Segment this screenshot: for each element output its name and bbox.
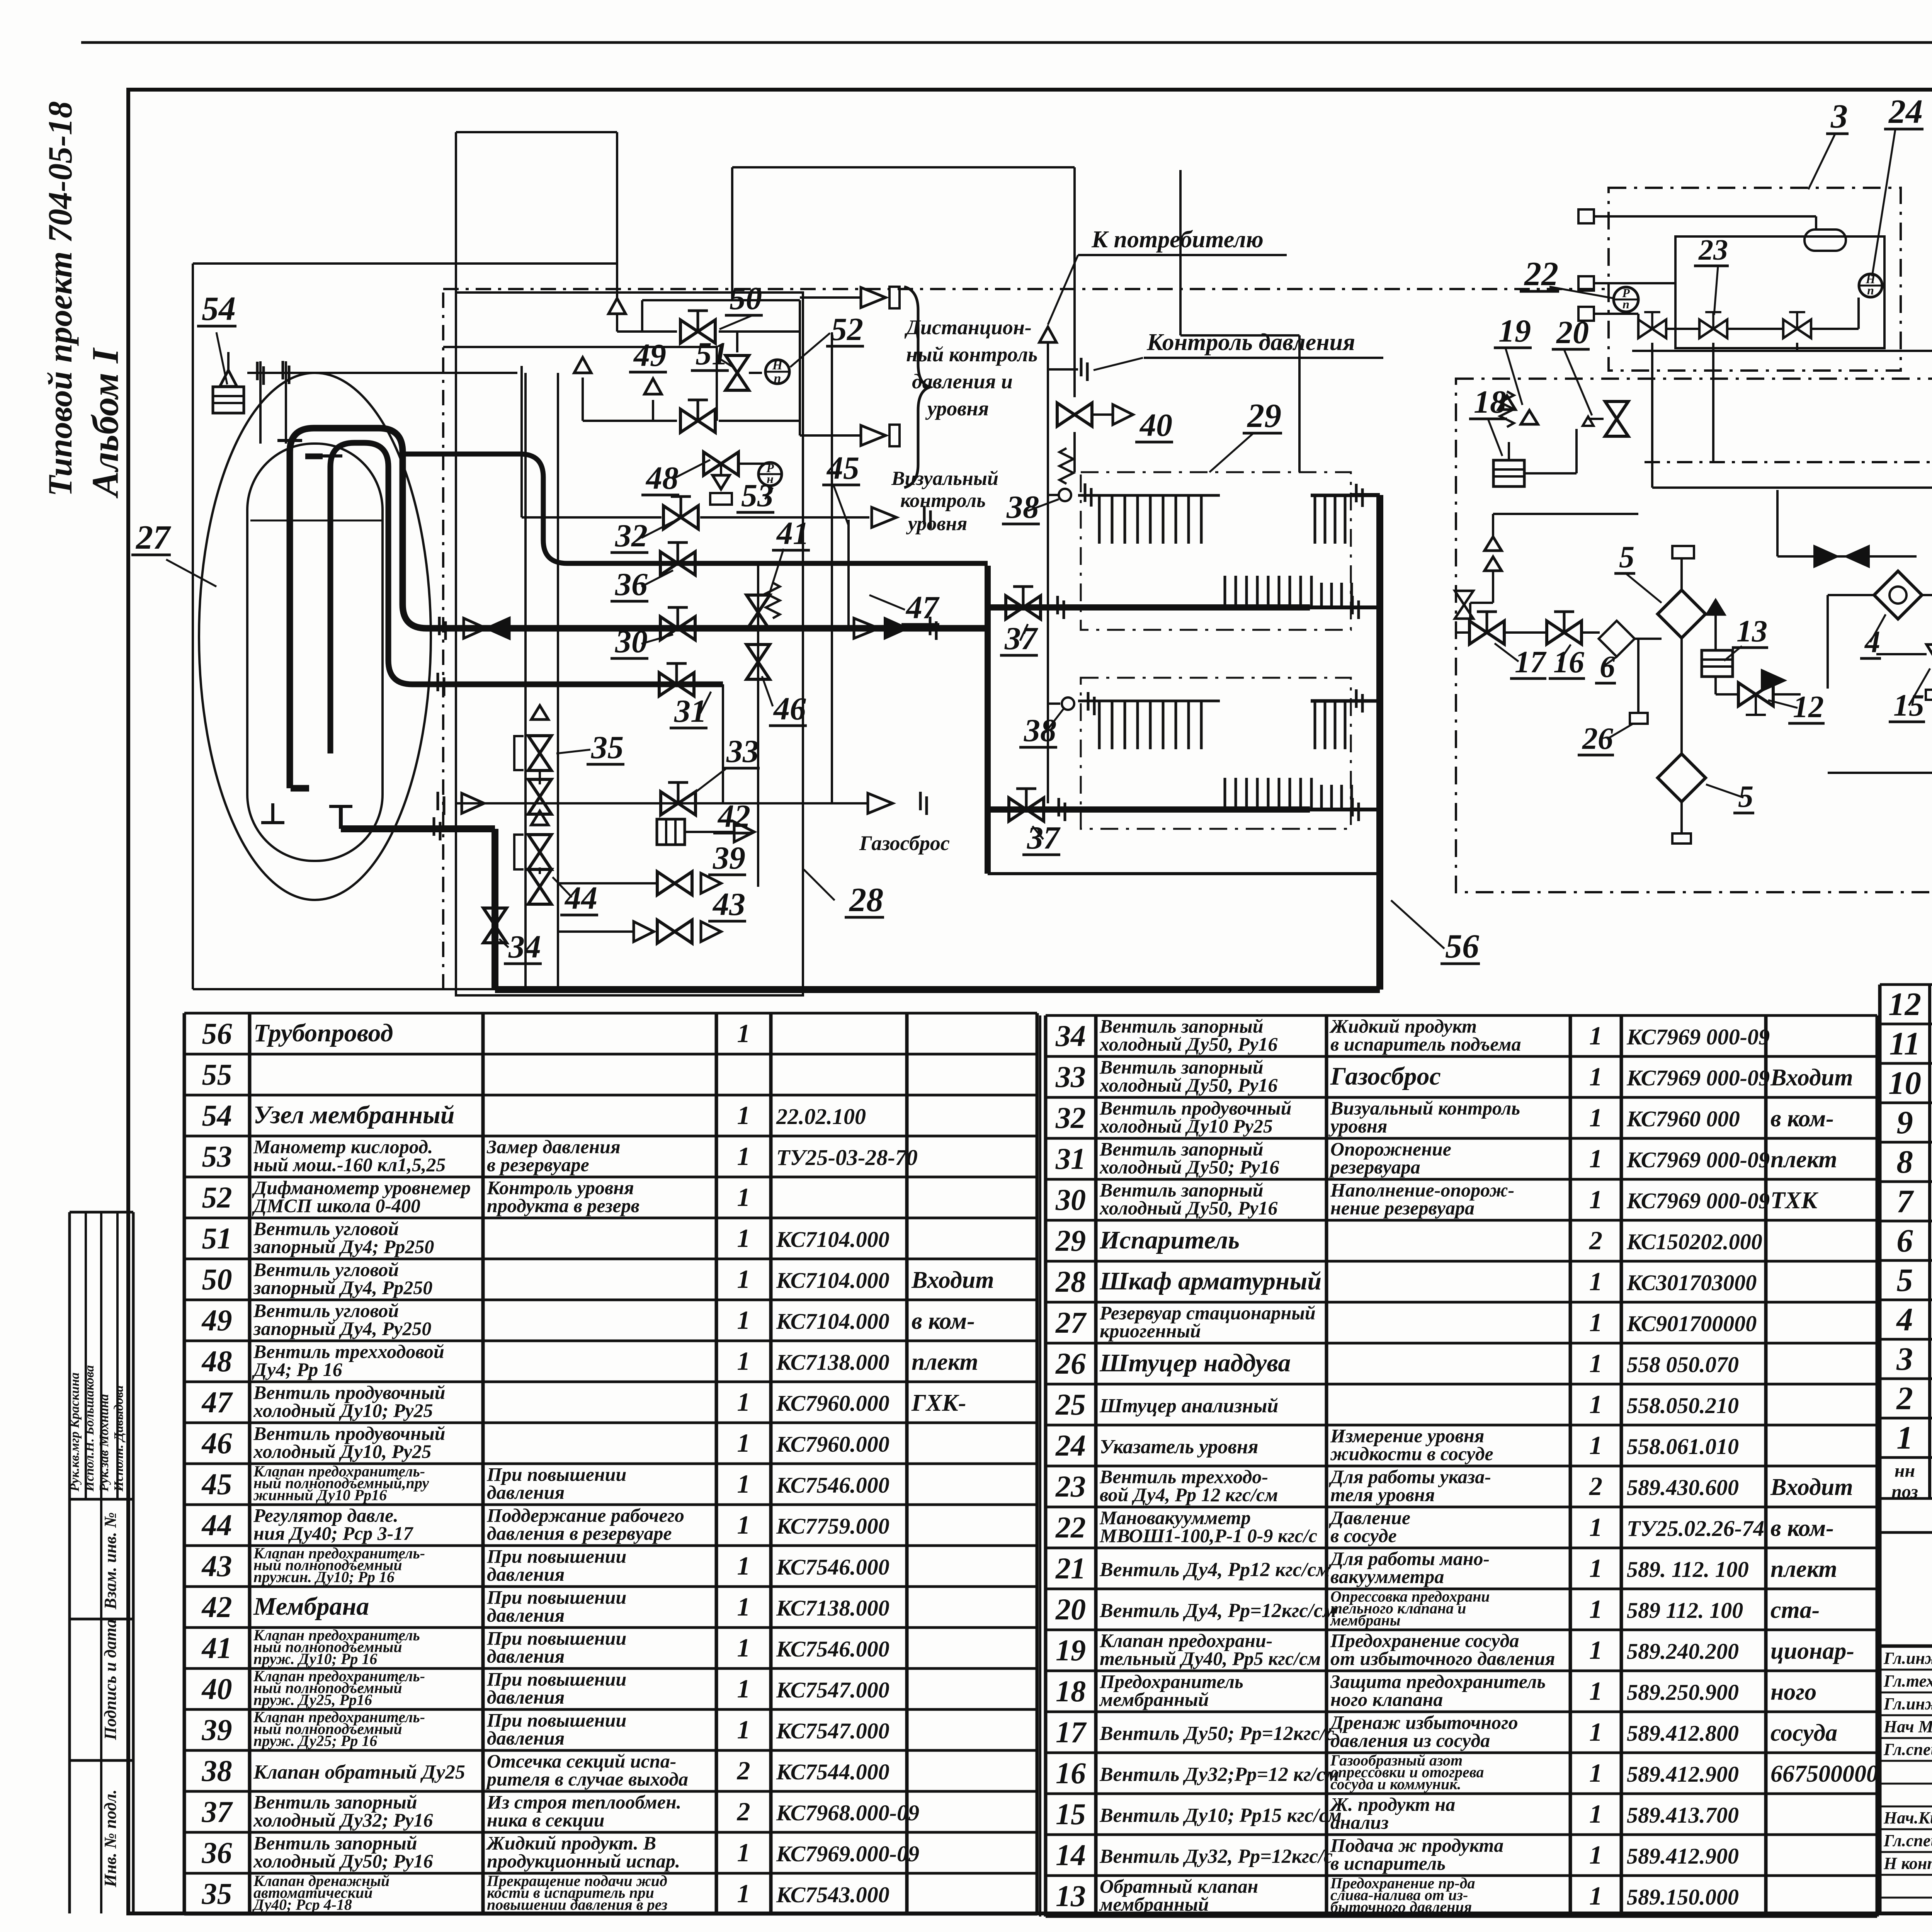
svg-text:в ком-: в ком- — [912, 1308, 975, 1334]
svg-text:44: 44 — [201, 1508, 232, 1542]
svg-text:п: п — [1867, 283, 1874, 297]
svg-text:1: 1 — [1589, 1758, 1602, 1787]
svg-text:Входит: Входит — [1770, 1065, 1853, 1091]
svg-text:19: 19 — [1498, 313, 1531, 349]
svg-text:КС7969.000-09: КС7969.000-09 — [776, 1841, 919, 1866]
svg-text:47: 47 — [905, 590, 940, 626]
svg-text:ный контроль: ный контроль — [906, 343, 1037, 366]
svg-text:15: 15 — [1056, 1797, 1086, 1831]
svg-text:1: 1 — [1589, 1635, 1602, 1665]
svg-text:пружин. Ду10; Рр 16: пружин. Ду10; Рр 16 — [253, 1568, 395, 1585]
svg-text:42: 42 — [201, 1590, 232, 1624]
svg-text:13: 13 — [1736, 614, 1767, 648]
svg-text:Гл.инженер: Гл.инженер — [1883, 1649, 1932, 1668]
svg-text:холодный Ду32; Ру16: холодный Ду32; Ру16 — [253, 1809, 433, 1831]
svg-text:29: 29 — [1055, 1224, 1086, 1257]
svg-text:31: 31 — [1055, 1142, 1086, 1175]
svg-text:КС7104.000: КС7104.000 — [776, 1227, 889, 1252]
svg-text:52: 52 — [831, 311, 863, 347]
svg-text:Н: Н — [772, 358, 783, 372]
svg-text:КС7138.000: КС7138.000 — [776, 1350, 889, 1375]
svg-text:53: 53 — [202, 1139, 232, 1173]
svg-text:КС7547.000: КС7547.000 — [776, 1677, 889, 1702]
svg-text:589.430.600: 589.430.600 — [1627, 1475, 1739, 1500]
svg-text:КС301703000: КС301703000 — [1626, 1270, 1757, 1295]
svg-text:1: 1 — [737, 1469, 750, 1498]
svg-text:27: 27 — [1055, 1306, 1087, 1339]
svg-text:анализ: анализ — [1330, 1811, 1389, 1833]
svg-text:56: 56 — [202, 1017, 232, 1050]
svg-text:Гл.технолог: Гл.технолог — [1883, 1672, 1932, 1690]
svg-text:плект: плект — [1770, 1556, 1837, 1582]
svg-text:Типовой проект 704-05-18: Типовой проект 704-05-18 — [42, 101, 79, 497]
svg-text:холодный Ду50, Ру16: холодный Ду50, Ру16 — [1099, 1033, 1277, 1055]
svg-text:16: 16 — [1553, 645, 1584, 679]
svg-text:589.412.900: 589.412.900 — [1627, 1762, 1739, 1787]
svg-text:Нач.Кип: Нач.Кип — [1883, 1808, 1932, 1827]
svg-text:1: 1 — [737, 1633, 750, 1662]
svg-text:26: 26 — [1055, 1347, 1086, 1380]
svg-text:17: 17 — [1056, 1715, 1087, 1749]
svg-text:КС7969 000-09: КС7969 000-09 — [1626, 1024, 1770, 1049]
svg-text:КС7960 000: КС7960 000 — [1626, 1106, 1740, 1131]
svg-text:1: 1 — [1896, 1420, 1913, 1456]
svg-text:вой Ду4, Рр 12 кгс/см: вой Ду4, Рр 12 кгс/см — [1100, 1484, 1278, 1505]
svg-text:1: 1 — [1589, 1185, 1602, 1214]
svg-text:558.050.210: 558.050.210 — [1627, 1393, 1739, 1418]
svg-text:Подпись и дата: Подпись и дата — [101, 1619, 120, 1740]
svg-text:холодный Ду10 Ру25: холодный Ду10 Ру25 — [1099, 1115, 1273, 1137]
svg-text:17: 17 — [1515, 645, 1547, 679]
svg-text:3: 3 — [1830, 98, 1848, 135]
svg-text:37: 37 — [1027, 820, 1061, 856]
svg-text:52: 52 — [202, 1180, 232, 1214]
svg-text:давления: давления — [487, 1645, 565, 1667]
svg-text:40: 40 — [201, 1672, 232, 1706]
svg-text:плект: плект — [1770, 1146, 1837, 1173]
svg-text:давления: давления — [487, 1727, 565, 1749]
svg-text:Мембрана: Мембрана — [253, 1592, 369, 1621]
svg-text:40: 40 — [1139, 407, 1172, 443]
svg-text:14: 14 — [1056, 1838, 1086, 1872]
svg-text:холодный Ду10, Ру25: холодный Ду10, Ру25 — [253, 1440, 431, 1462]
svg-text:ного: ного — [1770, 1679, 1816, 1705]
svg-text:19: 19 — [1056, 1633, 1086, 1667]
svg-text:тельный Ду40, Рр5 кгс/см: тельный Ду40, Рр5 кгс/см — [1100, 1648, 1321, 1669]
svg-text:ДМСП школа 0-400: ДМСП школа 0-400 — [252, 1195, 420, 1216]
svg-text:45: 45 — [201, 1467, 232, 1501]
svg-text:589.412.800: 589.412.800 — [1627, 1721, 1739, 1746]
svg-text:23: 23 — [1055, 1469, 1086, 1503]
svg-text:34: 34 — [508, 929, 541, 965]
svg-text:34: 34 — [1055, 1019, 1086, 1053]
svg-text:КС7104.000: КС7104.000 — [776, 1268, 889, 1293]
svg-text:1: 1 — [737, 1428, 750, 1458]
svg-text:1: 1 — [737, 1264, 750, 1294]
svg-text:от избыточного давления: от избыточного давления — [1330, 1648, 1555, 1669]
svg-text:1: 1 — [1589, 1553, 1602, 1583]
svg-text:Гл.спец.кип: Гл.спец.кип — [1883, 1831, 1932, 1850]
svg-text:Шкаф арматурный: Шкаф арматурный — [1099, 1267, 1321, 1295]
svg-text:9: 9 — [1896, 1104, 1913, 1141]
svg-text:Ду4; Рр 16: Ду4; Рр 16 — [252, 1359, 342, 1380]
svg-text:1: 1 — [1589, 1062, 1602, 1091]
svg-text:1: 1 — [737, 1715, 750, 1744]
svg-text:35: 35 — [591, 730, 624, 765]
svg-text:Инв. № подл.: Инв. № подл. — [101, 1789, 120, 1888]
svg-text:1: 1 — [1589, 1430, 1602, 1460]
svg-text:КС7960.000: КС7960.000 — [776, 1432, 889, 1457]
svg-text:28: 28 — [1055, 1265, 1086, 1298]
svg-text:39: 39 — [713, 840, 745, 876]
svg-text:Вентиль Ду32, Рр=12кгс/с: Вентиль Ду32, Рр=12кгс/с — [1099, 1845, 1333, 1867]
svg-text:1: 1 — [1589, 1308, 1602, 1337]
svg-text:54: 54 — [202, 290, 236, 328]
svg-text:жинный Ду10 Рр16: жинный Ду10 Рр16 — [253, 1486, 387, 1503]
svg-text:ного клапана: ного клапана — [1330, 1689, 1443, 1710]
svg-text:46: 46 — [773, 691, 806, 727]
svg-text:теля уровня: теля уровня — [1330, 1484, 1435, 1505]
svg-text:Н контр: Н контр — [1883, 1854, 1932, 1873]
svg-text:21: 21 — [1055, 1551, 1086, 1585]
svg-text:давления: давления — [487, 1481, 565, 1503]
svg-text:запорный Ду4, Ру250: запорный Ду4, Ру250 — [253, 1318, 431, 1339]
svg-text:мембраны: мембраны — [1330, 1611, 1400, 1629]
svg-text:41: 41 — [201, 1631, 232, 1665]
svg-text:589.412.900: 589.412.900 — [1627, 1844, 1739, 1869]
svg-text:45: 45 — [826, 450, 859, 486]
svg-text:46: 46 — [201, 1426, 232, 1460]
svg-text:1: 1 — [1589, 1389, 1602, 1419]
svg-text:плект: плект — [912, 1349, 978, 1375]
svg-text:ный мош.-160 кл1,5,25: ный мош.-160 кл1,5,25 — [253, 1154, 446, 1175]
svg-text:1: 1 — [737, 1510, 750, 1539]
svg-text:558.061.010: 558.061.010 — [1627, 1434, 1739, 1459]
svg-text:3: 3 — [1896, 1341, 1913, 1377]
svg-text:1: 1 — [1589, 1103, 1602, 1132]
svg-text:28: 28 — [849, 881, 883, 919]
svg-text:нн: нн — [1895, 1461, 1915, 1481]
svg-text:1: 1 — [737, 1305, 750, 1335]
svg-text:Ду40; Рср 4-18: Ду40; Рср 4-18 — [252, 1896, 352, 1913]
svg-text:1: 1 — [737, 1838, 750, 1867]
svg-text:Гл.спец.мко: Гл.спец.мко — [1883, 1740, 1932, 1759]
svg-text:22.02.100: 22.02.100 — [776, 1104, 866, 1129]
svg-text:Рук.кв.мгр Краскина: Рук.кв.мгр Краскина — [68, 1372, 82, 1492]
svg-text:продукционный испар.: продукционный испар. — [487, 1850, 680, 1872]
svg-text:589.413.700: 589.413.700 — [1627, 1803, 1739, 1828]
svg-text:36: 36 — [202, 1836, 232, 1869]
svg-text:29: 29 — [1247, 397, 1281, 435]
svg-text:давления: давления — [487, 1604, 565, 1626]
svg-text:Взам. инв. №: Взам. инв. № — [101, 1512, 120, 1610]
svg-text:32: 32 — [1055, 1101, 1086, 1134]
svg-text:КС7969 000-09: КС7969 000-09 — [1626, 1147, 1770, 1172]
svg-text:КС7543.000: КС7543.000 — [776, 1882, 889, 1907]
svg-text:КС7960.000: КС7960.000 — [776, 1391, 889, 1416]
svg-text:1: 1 — [737, 1592, 750, 1621]
svg-text:1: 1 — [737, 1387, 750, 1417]
svg-text:11: 11 — [1889, 1026, 1920, 1062]
svg-text:мембранный: мембранный — [1099, 1893, 1209, 1915]
svg-text:КС7546.000: КС7546.000 — [776, 1636, 889, 1662]
svg-text:КС7104.000: КС7104.000 — [776, 1309, 889, 1334]
svg-text:холодный Ду10; Ру25: холодный Ду10; Ру25 — [253, 1400, 433, 1421]
svg-text:20: 20 — [1556, 315, 1589, 350]
svg-text:К потребителю: К потребителю — [1091, 226, 1264, 253]
svg-text:уровня: уровня — [906, 513, 967, 535]
svg-text:558 050.070: 558 050.070 — [1627, 1352, 1739, 1377]
svg-text:Штуцер наддува: Штуцер наддува — [1099, 1349, 1291, 1377]
svg-text:холодный Ду50; Ру16: холодный Ду50; Ру16 — [1099, 1156, 1279, 1178]
svg-text:давления: давления — [487, 1563, 565, 1585]
svg-text:быточного давления: быточного давления — [1330, 1898, 1472, 1915]
svg-text:КС7546.000: КС7546.000 — [776, 1554, 889, 1580]
svg-text:56: 56 — [1445, 928, 1479, 965]
svg-text:в испаритель подъема: в испаритель подъема — [1330, 1033, 1521, 1055]
svg-text:589.240.200: 589.240.200 — [1627, 1639, 1739, 1664]
svg-text:сосуда: сосуда — [1770, 1720, 1837, 1746]
svg-text:589 112. 100: 589 112. 100 — [1627, 1598, 1743, 1623]
svg-text:1: 1 — [1589, 1021, 1602, 1050]
svg-text:4: 4 — [1896, 1301, 1913, 1338]
svg-text:1: 1 — [1589, 1799, 1602, 1828]
svg-text:давления и: давления и — [912, 370, 1013, 393]
svg-text:27: 27 — [135, 519, 171, 556]
svg-text:ТХК: ТХК — [1770, 1187, 1818, 1214]
svg-text:8: 8 — [1896, 1144, 1913, 1180]
svg-text:Контроль давления: Контроль давления — [1146, 329, 1355, 355]
svg-text:Штуцер анализный: Штуцер анализный — [1099, 1395, 1278, 1417]
svg-text:Альбом I: Альбом I — [85, 347, 126, 499]
svg-text:50: 50 — [730, 281, 762, 316]
svg-text:Клапан обратный Ду25: Клапан обратный Ду25 — [253, 1761, 465, 1783]
svg-text:нение резервуара: нение резервуара — [1330, 1197, 1475, 1219]
svg-text:2: 2 — [737, 1797, 750, 1826]
svg-text:32: 32 — [615, 518, 648, 554]
svg-text:38: 38 — [202, 1754, 232, 1787]
svg-text:давления в резервуаре: давления в резервуаре — [487, 1522, 672, 1544]
svg-text:1: 1 — [737, 1551, 750, 1580]
svg-text:37: 37 — [202, 1795, 233, 1828]
svg-text:1: 1 — [737, 1674, 750, 1703]
svg-text:18: 18 — [1474, 384, 1506, 420]
svg-text:6: 6 — [1896, 1223, 1913, 1259]
svg-text:холодный Ду50, Ру16: холодный Ду50, Ру16 — [1099, 1197, 1277, 1219]
svg-text:п: п — [774, 371, 781, 386]
svg-text:повышении давления в рез: повышении давления в рез — [487, 1896, 667, 1913]
svg-text:ТУ25.02.26-74: ТУ25.02.26-74 — [1627, 1516, 1764, 1541]
svg-text:Исполн. Давыдова: Исполн. Давыдова — [112, 1385, 126, 1492]
svg-text:44: 44 — [564, 880, 597, 916]
svg-text:1: 1 — [737, 1141, 750, 1171]
svg-text:589.150.000: 589.150.000 — [1627, 1884, 1739, 1910]
svg-text:51: 51 — [202, 1221, 232, 1255]
svg-text:1: 1 — [1589, 1717, 1602, 1747]
svg-text:мембранный: мембранный — [1099, 1689, 1209, 1710]
svg-text:33: 33 — [1055, 1060, 1086, 1094]
svg-text:ста-: ста- — [1770, 1597, 1820, 1623]
svg-text:в резервуаре: в резервуаре — [487, 1154, 589, 1175]
svg-text:ния Ду40; Рср 3-17: ния Ду40; Рср 3-17 — [253, 1522, 413, 1544]
svg-text:33: 33 — [726, 733, 759, 769]
svg-text:54: 54 — [202, 1099, 232, 1132]
svg-text:38: 38 — [1024, 713, 1056, 748]
svg-text:22: 22 — [1055, 1510, 1086, 1544]
svg-text:55: 55 — [202, 1058, 232, 1091]
svg-text:24: 24 — [1055, 1429, 1086, 1462]
svg-text:ционар-: ционар- — [1770, 1638, 1854, 1664]
svg-text:16: 16 — [1056, 1756, 1086, 1790]
svg-text:Вентиль Ду50; Рр=12кгс/с: Вентиль Ду50; Рр=12кгс/с — [1099, 1723, 1334, 1745]
svg-text:Трубопровод: Трубопровод — [253, 1019, 393, 1047]
svg-text:Испаритель: Испаритель — [1099, 1226, 1240, 1254]
svg-text:Испол.Н. Большакова: Испол.Н. Большакова — [82, 1365, 97, 1492]
svg-text:ника в секции: ника в секции — [487, 1809, 605, 1831]
svg-text:1: 1 — [1589, 1594, 1602, 1624]
svg-text:жидкости в сосуде: жидкости в сосуде — [1330, 1443, 1493, 1464]
svg-text:2: 2 — [737, 1756, 750, 1785]
svg-text:давления: давления — [487, 1686, 565, 1708]
svg-text:запорный Ду4, Рр250: запорный Ду4, Рр250 — [253, 1277, 432, 1298]
svg-text:1: 1 — [1589, 1144, 1602, 1173]
svg-text:ТУ25-03-28-70: ТУ25-03-28-70 — [776, 1145, 918, 1170]
svg-text:Газосброс: Газосброс — [859, 832, 950, 855]
svg-text:589. 112. 100: 589. 112. 100 — [1627, 1557, 1749, 1582]
svg-text:криогенный: криогенный — [1100, 1320, 1201, 1342]
svg-text:Вентиль Ду32;Рр=12 кг/см: Вентиль Ду32;Рр=12 кг/см — [1099, 1764, 1339, 1786]
svg-text:рителя в случае выхода: рителя в случае выхода — [485, 1768, 688, 1790]
svg-text:КС901700000: КС901700000 — [1626, 1311, 1757, 1336]
svg-text:6: 6 — [1600, 650, 1615, 684]
svg-text:10: 10 — [1888, 1065, 1921, 1101]
svg-text:вакуумметра: вакуумметра — [1330, 1566, 1444, 1587]
svg-text:Вентиль Ду4, Рр12 кгс/см: Вентиль Ду4, Рр12 кгс/см — [1099, 1559, 1330, 1581]
svg-text:Вентиль Ду4, Рр=12кгс/см: Вентиль Ду4, Рр=12кгс/см — [1099, 1600, 1337, 1622]
svg-text:пруж. Ду10; Рр 16: пруж. Ду10; Рр 16 — [253, 1650, 377, 1667]
svg-text:Газосброс: Газосброс — [1330, 1062, 1441, 1090]
svg-text:23: 23 — [1698, 234, 1728, 266]
svg-text:резервуара: резервуара — [1329, 1156, 1420, 1178]
svg-text:36: 36 — [615, 566, 648, 602]
svg-text:пруж. Ду25; Рр 16: пруж. Ду25; Рр 16 — [253, 1732, 377, 1749]
svg-text:50: 50 — [202, 1262, 232, 1296]
svg-text:49: 49 — [633, 337, 666, 373]
svg-text:Указатель уровня: Указатель уровня — [1100, 1436, 1259, 1458]
svg-text:5: 5 — [1619, 540, 1634, 574]
svg-text:продукта в резерв: продукта в резерв — [487, 1195, 639, 1216]
svg-text:МВОШ1-100,Р-1 0-9 кгс/с: МВОШ1-100,Р-1 0-9 кгс/с — [1099, 1525, 1317, 1546]
svg-text:КС7138.000: КС7138.000 — [776, 1595, 889, 1621]
svg-text:2: 2 — [1896, 1380, 1913, 1417]
svg-text:Входит: Входит — [1770, 1474, 1853, 1500]
svg-text:38: 38 — [1006, 489, 1039, 525]
svg-text:КС7969 000-09: КС7969 000-09 — [1626, 1065, 1770, 1090]
svg-text:уровня: уровня — [1328, 1115, 1387, 1137]
svg-text:пруж. Ду25, Рр16: пруж. Ду25, Рр16 — [253, 1691, 372, 1708]
svg-text:589.250.900: 589.250.900 — [1627, 1680, 1739, 1705]
svg-text:в ком-: в ком- — [1770, 1515, 1834, 1541]
svg-text:1: 1 — [737, 1100, 750, 1130]
svg-text:43: 43 — [712, 886, 745, 922]
svg-text:запорный Ду4; Рр250: запорный Ду4; Рр250 — [253, 1236, 434, 1257]
svg-text:холодный Ду50, Ру16: холодный Ду50, Ру16 — [1099, 1074, 1277, 1096]
svg-text:в ком-: в ком- — [1770, 1105, 1834, 1132]
svg-text:Дистанцион-: Дистанцион- — [904, 316, 1032, 339]
svg-text:13: 13 — [1056, 1879, 1086, 1913]
svg-text:41: 41 — [776, 515, 809, 551]
svg-text:25: 25 — [1055, 1388, 1086, 1421]
svg-text:уровня: уровня — [925, 397, 989, 420]
svg-text:давления из сосуда: давления из сосуда — [1330, 1730, 1490, 1751]
svg-text:1: 1 — [737, 1346, 750, 1376]
svg-text:1: 1 — [1589, 1512, 1602, 1542]
svg-text:18: 18 — [1056, 1674, 1086, 1708]
svg-text:КС7547.000: КС7547.000 — [776, 1718, 889, 1743]
svg-text:в испаритель: в испаритель — [1330, 1852, 1446, 1874]
svg-text:1: 1 — [737, 1019, 750, 1048]
svg-text:КС7546.000: КС7546.000 — [776, 1473, 889, 1498]
svg-text:48: 48 — [201, 1344, 232, 1378]
svg-text:1: 1 — [1589, 1676, 1602, 1706]
svg-text:Нач МКО: Нач МКО — [1883, 1717, 1932, 1736]
svg-text:43: 43 — [201, 1549, 232, 1583]
svg-text:667500000: 667500000 — [1770, 1761, 1878, 1787]
svg-text:Вентиль Ду10; Рр15 кгс/см: Вентиль Ду10; Рр15 кгс/см — [1099, 1804, 1342, 1827]
svg-text:1: 1 — [1589, 1881, 1602, 1910]
svg-text:холодный Ду50; Ру16: холодный Ду50; Ру16 — [253, 1850, 433, 1872]
svg-text:КС7759.000: КС7759.000 — [776, 1514, 889, 1539]
svg-text:Узел мембранный: Узел мембранный — [253, 1101, 454, 1129]
svg-text:КС7968.000-09: КС7968.000-09 — [776, 1800, 919, 1825]
svg-text:2: 2 — [1589, 1226, 1602, 1255]
svg-text:ГХК-: ГХК- — [911, 1390, 966, 1416]
svg-text:Гл.инж.пр: Гл.инж.пр — [1883, 1694, 1932, 1713]
svg-text:30: 30 — [615, 624, 648, 660]
svg-text:КС150202.000: КС150202.000 — [1626, 1229, 1762, 1254]
svg-text:24: 24 — [1888, 93, 1923, 131]
svg-text:7: 7 — [1896, 1183, 1914, 1219]
svg-text:сосуда и коммуник.: сосуда и коммуник. — [1330, 1775, 1461, 1793]
svg-text:1: 1 — [1589, 1267, 1602, 1296]
svg-text:1: 1 — [737, 1182, 750, 1212]
svg-text:в сосуде: в сосуде — [1330, 1525, 1397, 1546]
svg-text:39: 39 — [202, 1713, 232, 1747]
svg-text:поз: поз — [1891, 1481, 1918, 1502]
svg-text:н: н — [767, 472, 774, 486]
svg-text:20: 20 — [1055, 1592, 1086, 1626]
svg-text:1: 1 — [1589, 1349, 1602, 1378]
svg-text:1: 1 — [1589, 1840, 1602, 1869]
svg-text:2: 2 — [1589, 1471, 1602, 1501]
svg-text:51: 51 — [696, 336, 728, 372]
svg-text:30: 30 — [1055, 1183, 1086, 1216]
svg-text:Рук.зав Мохнина: Рук.зав Мохнина — [97, 1394, 111, 1492]
svg-text:49: 49 — [201, 1303, 232, 1337]
svg-text:КС7969 000-09: КС7969 000-09 — [1626, 1188, 1770, 1213]
svg-text:КС7544.000: КС7544.000 — [776, 1759, 889, 1784]
svg-text:47: 47 — [201, 1385, 233, 1419]
svg-text:1: 1 — [737, 1223, 750, 1253]
svg-text:5: 5 — [1896, 1262, 1913, 1298]
svg-text:Входит: Входит — [911, 1267, 994, 1293]
svg-text:контроль: контроль — [900, 490, 986, 512]
svg-text:Визуальный: Визуальный — [891, 468, 998, 490]
svg-text:1: 1 — [737, 1879, 750, 1908]
svg-text:п: п — [1622, 297, 1629, 311]
svg-text:35: 35 — [202, 1877, 232, 1910]
svg-text:12: 12 — [1888, 986, 1921, 1022]
